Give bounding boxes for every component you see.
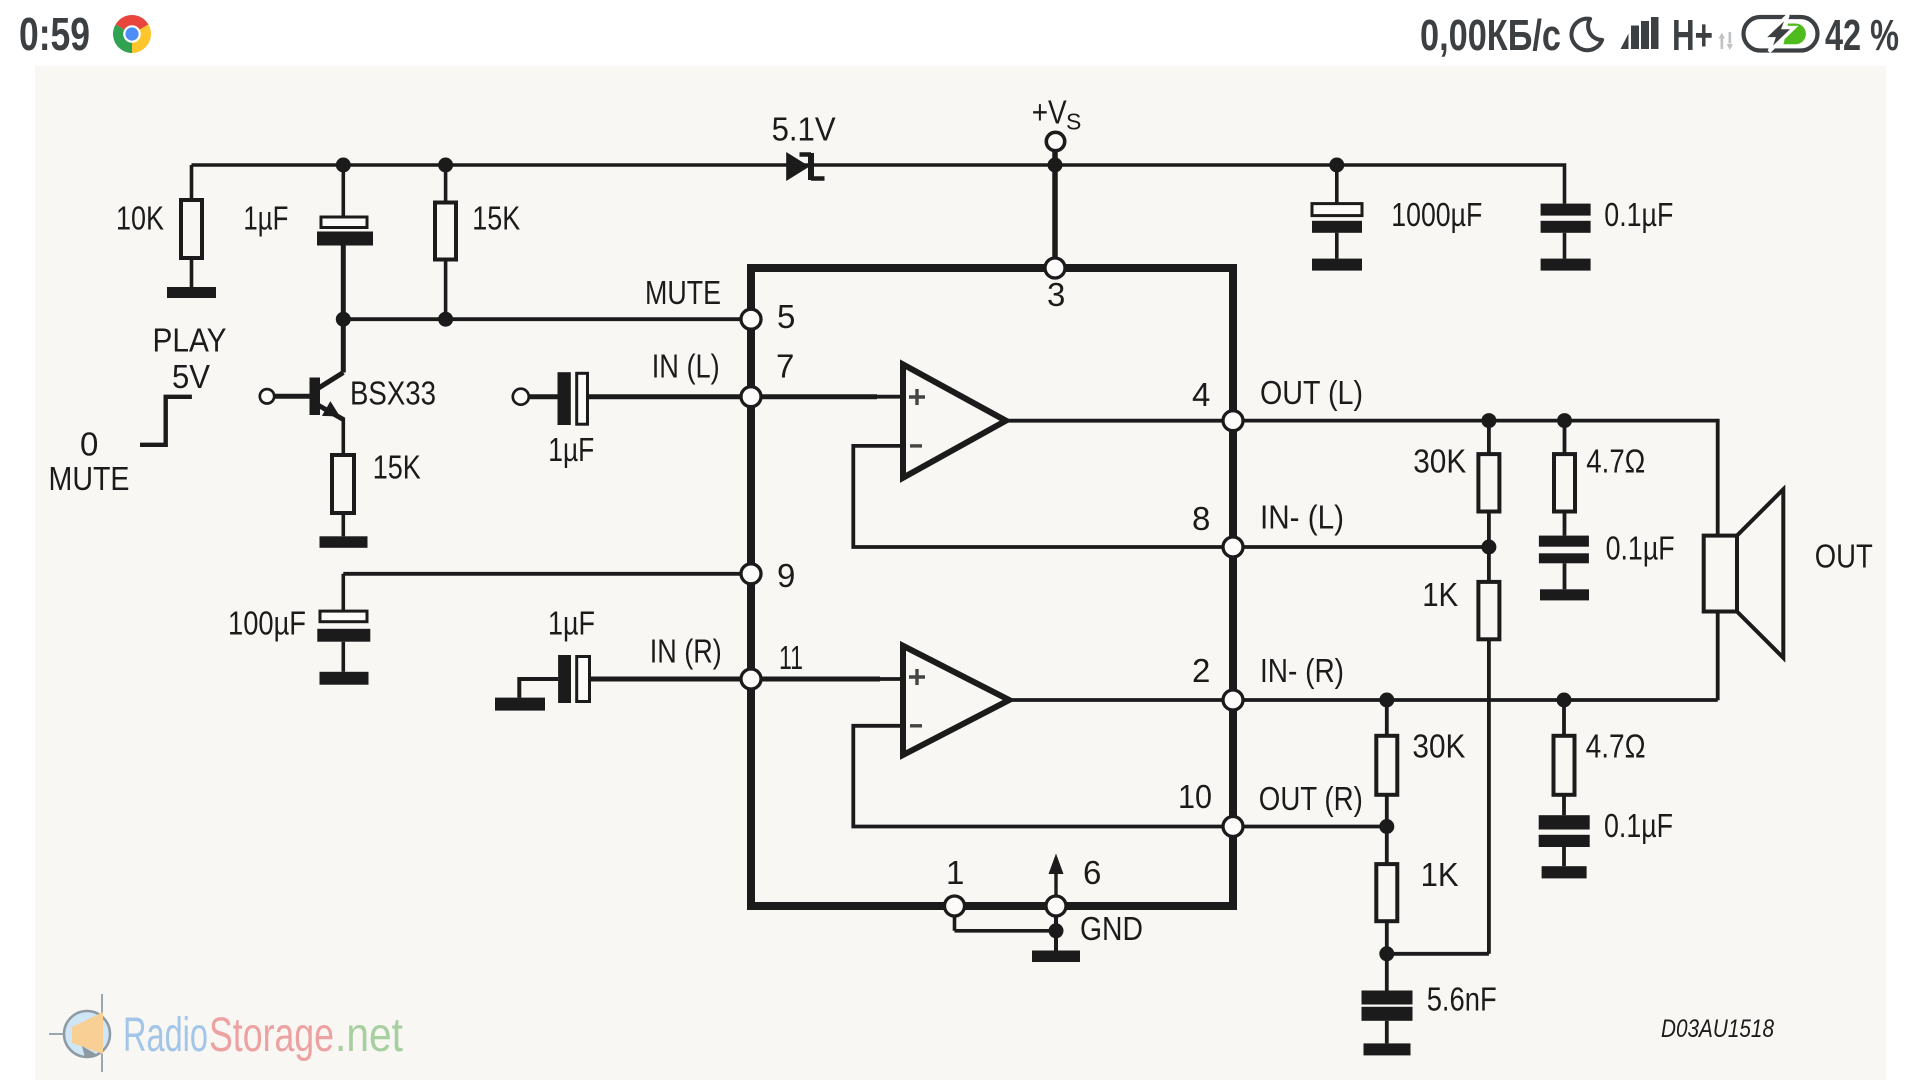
- svg-text:OUT (L): OUT (L): [1260, 374, 1363, 411]
- capacitor 5.6nF: [1362, 981, 1497, 1044]
- svg-text:30K: 30K: [1412, 728, 1465, 765]
- capacitor 1uF input L: [529, 372, 752, 468]
- node: rail junction at 15K: [438, 158, 453, 173]
- moon (night mode) icon: [1571, 19, 1602, 51]
- wire: mute line to pin 5: [343, 317, 751, 321]
- pin 10: [1223, 817, 1243, 837]
- pin 1: [945, 896, 965, 916]
- wire: op A feedback to pin 8: [853, 446, 1230, 547]
- resistor 4.7ohm (R zobel): [1554, 700, 1646, 815]
- node +Vs terminal: [1032, 94, 1082, 173]
- play/mute step waveform: [49, 322, 227, 498]
- svg-text:S: S: [1066, 109, 1081, 135]
- svg-text:30K: 30K: [1413, 443, 1466, 480]
- resistor 15K (upper): [435, 165, 520, 319]
- svg-text:+V: +V: [1032, 94, 1067, 131]
- ground under bypass 0.1uF: [1541, 259, 1591, 271]
- node junctions on IN-(R): [1379, 693, 1394, 708]
- wire: op B output to pin 2: [1009, 698, 1233, 702]
- node: mute line junction at transistor: [336, 312, 351, 327]
- capacitor 100uF (polarized): [228, 574, 370, 672]
- svg-text:5.6nF: 5.6nF: [1427, 981, 1497, 1018]
- svg-text:0:59: 0:59: [19, 8, 90, 60]
- svg-text:IN- (R): IN- (R): [1260, 652, 1344, 689]
- svg-text:IN (L): IN (L): [652, 348, 720, 385]
- battery charging icon: [1744, 15, 1818, 52]
- wire: top supply rail: [192, 165, 1565, 204]
- svg-text:1K: 1K: [1422, 576, 1458, 613]
- pin 11: [741, 669, 761, 689]
- pin 7: [741, 387, 761, 407]
- svg-text:8: 8: [1192, 500, 1210, 537]
- wire: OUT(L) to speaker: [1233, 421, 1718, 536]
- resistor 30K (R feedback): [1376, 700, 1465, 864]
- svg-text:15K: 15K: [472, 200, 520, 237]
- node: 5.6nF junction: [1379, 946, 1394, 961]
- ground under R zobel: [1542, 866, 1587, 878]
- capacitor 0.1uF (L zobel): [1539, 530, 1675, 590]
- IC body (amplifier): [751, 268, 1233, 906]
- svg-text:0.1µF: 0.1µF: [1606, 530, 1675, 567]
- pin 4: [1223, 411, 1243, 431]
- svg-text:MUTE: MUTE: [645, 274, 721, 311]
- svg-text:PLAY: PLAY: [153, 322, 227, 359]
- pin 2: [1223, 690, 1243, 710]
- svg-text:OUT: OUT: [1815, 538, 1873, 575]
- svg-text:9: 9: [777, 557, 795, 594]
- resistor 4.7ohm (L zobel): [1554, 421, 1645, 536]
- wire: pin11 to op-amp B + input: [751, 677, 880, 682]
- transistor BSX33: [260, 319, 436, 455]
- node junctions on OUT(L): [1481, 413, 1496, 428]
- svg-text:42 %: 42 %: [1825, 11, 1899, 60]
- svg-text:100µF: 100µF: [228, 605, 306, 642]
- wire: pin7 to op-amp A + input: [751, 394, 877, 399]
- wire: IN-(R) rail: [1233, 698, 1718, 702]
- input terminal L: [513, 389, 529, 405]
- ground under 100uF: [320, 672, 369, 685]
- capacitor 0.1uF (supply bypass): [1541, 196, 1674, 259]
- wire: pin1 to pin6 ground link: [955, 916, 1057, 931]
- op-amp U1B: [903, 646, 1009, 755]
- pin 6 arrow (substrate): [1049, 854, 1064, 897]
- pin 6: [1046, 896, 1066, 916]
- ground under 10K: [167, 287, 216, 298]
- resistor 1K (R): [1376, 856, 1458, 991]
- resistor 10K pull-up: [116, 165, 202, 287]
- svg-text:5: 5: [777, 298, 795, 335]
- capacitor 1uF input R: [519, 605, 751, 704]
- RadioStorage.net watermark logo: [49, 994, 110, 1072]
- resistor 30K (L feedback): [1413, 421, 1499, 582]
- ground under 1000uF: [1312, 259, 1362, 271]
- ground at input R: [495, 698, 545, 711]
- svg-text:IN- (L): IN- (L): [1260, 499, 1344, 536]
- node: gnd junction: [1049, 923, 1064, 938]
- op-amp U1A: [903, 364, 1006, 477]
- svg-text:Radio: Radio: [123, 1009, 208, 1062]
- speaker: [1704, 489, 1873, 700]
- capacitor 1000uF (polarized): [1312, 165, 1482, 259]
- resistor 15K (emitter): [332, 449, 421, 537]
- svg-text:1µF: 1µF: [548, 605, 595, 642]
- svg-text:4: 4: [1192, 376, 1210, 413]
- wire: op A output to pin 4: [1006, 419, 1233, 423]
- node: IN-(L) junction: [1481, 540, 1496, 555]
- svg-text:OUT (R): OUT (R): [1259, 780, 1363, 817]
- wire: op B feedback to pin 10: [853, 726, 1230, 827]
- signal bars: [1621, 17, 1659, 49]
- svg-text:15K: 15K: [373, 449, 421, 486]
- ground under 5.6nF: [1364, 1043, 1411, 1055]
- svg-text:H+: H+: [1672, 11, 1713, 60]
- svg-text:0.1µF: 0.1µF: [1604, 196, 1673, 233]
- svg-text:.net: .net: [335, 1009, 403, 1062]
- svg-text:4.7Ω: 4.7Ω: [1586, 443, 1645, 480]
- wire: IN-(L) to divider: [1233, 545, 1489, 549]
- svg-text:10: 10: [1178, 778, 1212, 815]
- svg-text:1K: 1K: [1421, 856, 1459, 893]
- capacitor 1uF (mute timing, polarized): [243, 165, 373, 319]
- svg-text:5V: 5V: [172, 358, 210, 395]
- zener diode 5.1V: [772, 111, 836, 182]
- svg-text:MUTE: MUTE: [49, 460, 130, 497]
- svg-text:Storage: Storage: [209, 1009, 334, 1062]
- pin 5: [741, 309, 761, 329]
- svg-text:1000µF: 1000µF: [1391, 196, 1482, 233]
- ground under L zobel: [1540, 589, 1589, 600]
- svg-text:0: 0: [80, 426, 98, 463]
- node: OUT(R) junction: [1379, 819, 1394, 834]
- node: rail junction at 1uF: [336, 158, 351, 173]
- svg-text:GND: GND: [1080, 910, 1143, 947]
- svg-text:D03AU1518: D03AU1518: [1661, 1015, 1774, 1043]
- svg-text:7: 7: [776, 348, 794, 385]
- svg-text:3: 3: [1047, 276, 1065, 313]
- wire: pin 9 line: [343, 572, 751, 576]
- svg-text:1: 1: [946, 854, 964, 891]
- chrome notification icon: [113, 15, 151, 53]
- node: rail junction at 1000uF: [1329, 158, 1344, 173]
- wire: +Vs drop to pin 3: [1052, 151, 1058, 269]
- pin 9: [741, 564, 761, 584]
- svg-text:10K: 10K: [116, 200, 164, 237]
- svg-text:6: 6: [1083, 854, 1101, 891]
- svg-text:0,00КБ/с: 0,00КБ/с: [1420, 11, 1561, 60]
- pin 3: [1045, 258, 1065, 278]
- svg-text:11: 11: [779, 639, 803, 676]
- svg-text:IN (R): IN (R): [650, 633, 722, 670]
- pin 8: [1223, 537, 1243, 557]
- tiny up/down arrows: [1719, 32, 1733, 50]
- node: mute line junction at 15K: [438, 312, 453, 327]
- svg-text:BSX33: BSX33: [350, 375, 436, 412]
- svg-text:1µF: 1µF: [548, 431, 594, 468]
- ground symbol GND: [1032, 951, 1080, 963]
- svg-text:2: 2: [1192, 652, 1210, 689]
- ground under emitter 15K: [320, 536, 368, 548]
- svg-text:4.7Ω: 4.7Ω: [1586, 728, 1646, 765]
- wire: OUT(R) to divider: [1233, 825, 1387, 829]
- svg-text:5.1V: 5.1V: [772, 111, 836, 148]
- svg-text:1µF: 1µF: [243, 200, 288, 237]
- resistor 1K (L): [1387, 576, 1500, 954]
- svg-text:0.1µF: 0.1µF: [1604, 807, 1673, 844]
- capacitor 0.1uF (R zobel): [1539, 807, 1673, 866]
